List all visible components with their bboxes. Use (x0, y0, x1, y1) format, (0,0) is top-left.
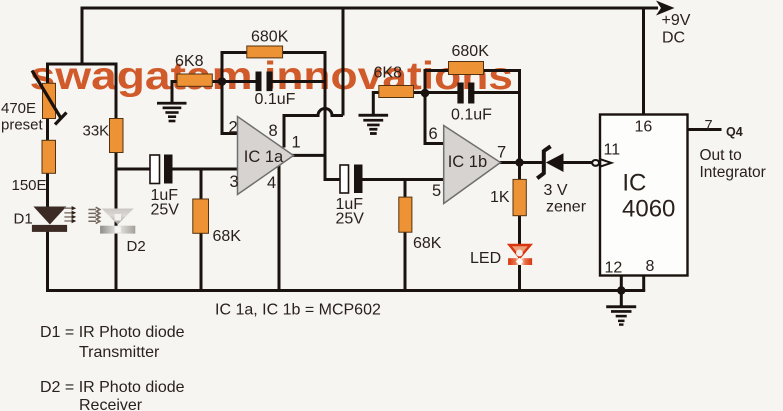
svg-text:12: 12 (605, 260, 623, 277)
svg-text:7: 7 (497, 144, 506, 162)
svg-text:Transmitter: Transmitter (79, 344, 160, 361)
svg-text:25V: 25V (336, 211, 365, 228)
svg-text:16: 16 (635, 119, 653, 136)
svg-text:1K: 1K (490, 189, 510, 206)
svg-text:Integrator: Integrator (700, 164, 766, 181)
svg-text:IC 1a, IC 1b = MCP602: IC 1a, IC 1b = MCP602 (215, 302, 381, 319)
svg-text:68K: 68K (213, 228, 242, 245)
svg-text:7: 7 (705, 118, 713, 134)
svg-text:470E: 470E (1, 100, 36, 117)
svg-text:D2: D2 (127, 238, 146, 255)
svg-text:6: 6 (429, 125, 438, 143)
svg-text:5: 5 (432, 182, 441, 200)
svg-text:11: 11 (604, 142, 621, 159)
svg-text:8: 8 (269, 122, 278, 140)
svg-text:680K: 680K (452, 43, 490, 60)
svg-text:2: 2 (229, 119, 238, 137)
svg-text:IC 1b: IC 1b (448, 153, 487, 171)
svg-text:swagatam: swagatam (30, 55, 253, 98)
svg-text:680K: 680K (251, 29, 289, 46)
svg-text:6K8: 6K8 (374, 65, 403, 82)
svg-text:3: 3 (230, 173, 239, 191)
svg-text:8: 8 (646, 258, 655, 275)
svg-text:DC: DC (662, 30, 685, 47)
svg-text:6K8: 6K8 (175, 53, 204, 70)
svg-text:1: 1 (292, 134, 301, 152)
svg-text:zener: zener (546, 199, 587, 216)
svg-text:4060: 4060 (622, 196, 675, 223)
svg-text:Q4: Q4 (726, 125, 743, 139)
svg-text:150E: 150E (12, 177, 47, 194)
svg-text:68K: 68K (413, 235, 442, 252)
svg-text:3 V: 3 V (544, 182, 568, 199)
svg-text:0.1uF: 0.1uF (255, 91, 296, 108)
svg-text:IC 1a: IC 1a (244, 148, 284, 166)
svg-text:preset: preset (1, 117, 44, 134)
svg-text:D2 = IR Photo diode: D2 = IR Photo diode (40, 379, 185, 396)
svg-text:Out to: Out to (700, 147, 742, 164)
svg-text:0.1uF: 0.1uF (451, 107, 492, 124)
svg-text:LED: LED (470, 250, 501, 267)
svg-text:33K: 33K (83, 123, 110, 140)
svg-text:+9V: +9V (662, 12, 691, 29)
svg-text:4: 4 (267, 174, 276, 192)
svg-text:D1: D1 (14, 211, 33, 228)
svg-text:D1 = IR Photo diode: D1 = IR Photo diode (40, 324, 185, 341)
svg-text:IC: IC (622, 170, 646, 197)
svg-text:Receiver: Receiver (79, 397, 143, 411)
svg-text:25V: 25V (151, 202, 180, 219)
